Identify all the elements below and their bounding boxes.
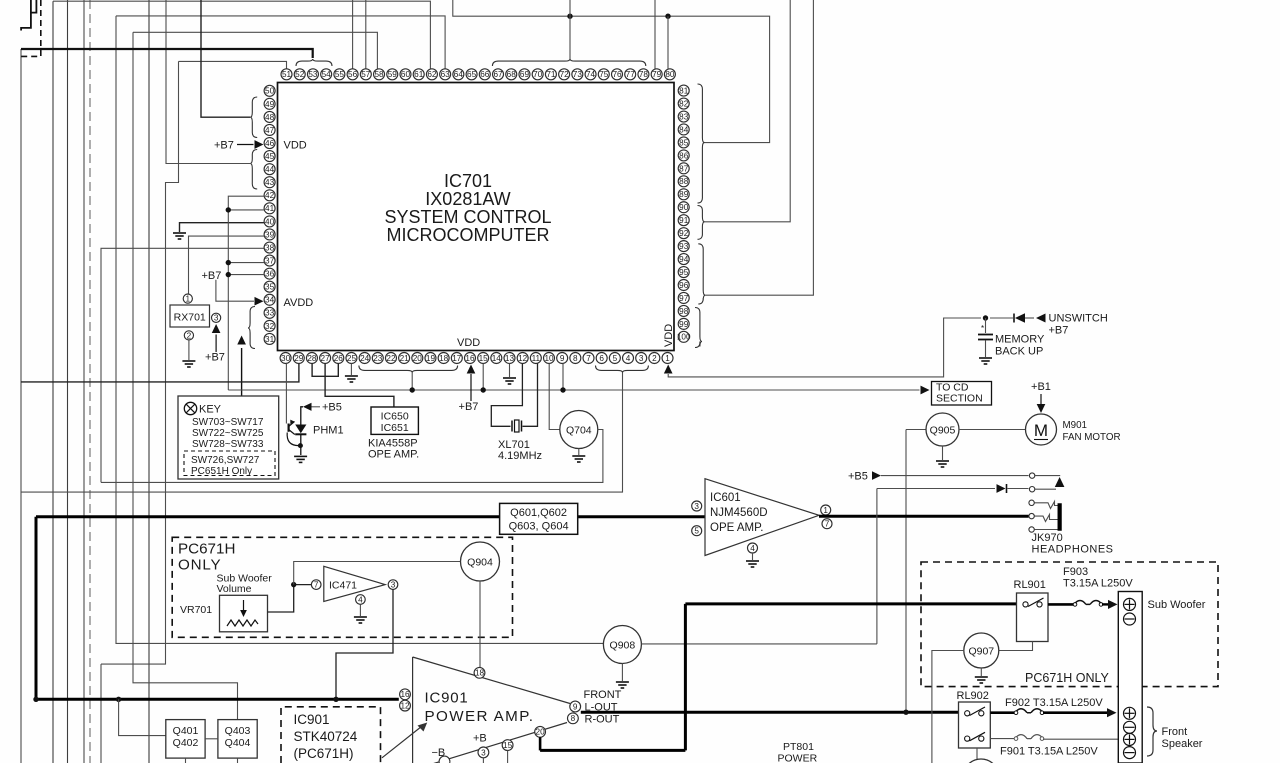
svg-text:78: 78 <box>639 70 649 79</box>
svg-text:Volume: Volume <box>217 583 252 595</box>
jack row3 contact <box>1035 502 1059 509</box>
svg-text:IC601: IC601 <box>710 492 741 504</box>
wire top to pin57 <box>365 0 367 69</box>
thick audio line IC601 out to jack <box>819 515 1029 518</box>
wire Q704 to y482 net <box>101 430 603 483</box>
transistor box Q401 Q402 <box>166 720 205 759</box>
jack row4 contact <box>1035 515 1059 522</box>
ground Q704 <box>578 449 580 456</box>
svg-text:ONLY: ONLY <box>178 557 221 574</box>
thick line fuse to subwoofer terminal <box>1102 603 1108 605</box>
junction dot PHM1 <box>298 443 303 448</box>
svg-text:Q403: Q403 <box>225 725 251 737</box>
svg-text:99: 99 <box>679 320 689 329</box>
wire pin30 stem to PHM1 <box>285 364 287 424</box>
wire Q401 stem <box>185 758 187 763</box>
crystal XL701 <box>511 421 513 432</box>
fuse F901 <box>1015 735 1043 739</box>
svg-text:3: 3 <box>639 354 644 363</box>
svg-text:3: 3 <box>694 502 699 511</box>
ground Q907 <box>980 668 982 676</box>
bus wire thick y49 <box>21 49 313 58</box>
svg-text:36: 36 <box>265 270 275 279</box>
wire Q904 down to IC901 pin18 <box>479 581 481 668</box>
svg-text:80: 80 <box>665 70 675 79</box>
wire bundle vertical x67 <box>67 0 69 763</box>
ground Q908 <box>621 664 623 682</box>
svg-text:Q908: Q908 <box>610 639 636 651</box>
transistor Q704 <box>560 411 598 449</box>
svg-text:IX0281AW: IX0281AW <box>425 189 510 209</box>
jack row2 wire to switch arrow <box>1035 488 1056 490</box>
svg-text:96: 96 <box>679 281 689 290</box>
wire bundle vertical x149 <box>148 0 150 763</box>
wire Q908 to diode riser x877 <box>876 489 878 644</box>
wire Q905 to M901 <box>959 429 1026 431</box>
svg-text:12: 12 <box>518 354 528 363</box>
brace left pins 49-47 <box>250 97 257 138</box>
op-amp IC650/IC651 box <box>371 407 418 434</box>
IC IC701 body <box>278 83 675 351</box>
junction dot pin15 <box>481 387 486 392</box>
svg-text:Q603, Q604: Q603, Q604 <box>509 521 569 533</box>
svg-text:54: 54 <box>322 70 332 79</box>
svg-text:4: 4 <box>358 595 363 604</box>
svg-text:RL901: RL901 <box>1014 579 1046 591</box>
brace right pins 81-89 <box>698 84 705 203</box>
svg-text:91: 91 <box>679 216 689 225</box>
svg-text:16: 16 <box>465 354 475 363</box>
svg-text:JK970: JK970 <box>1032 532 1063 544</box>
wire branch x165 jog <box>101 61 179 664</box>
junction dot x118 <box>116 697 121 702</box>
svg-text:53: 53 <box>308 70 318 79</box>
svg-text:HEADPHONES: HEADPHONES <box>1032 544 1114 556</box>
wire y32 to pin58 <box>133 32 377 69</box>
IC471 pin 3 <box>388 580 398 590</box>
svg-text:Q907: Q907 <box>968 645 994 657</box>
svg-text:40: 40 <box>265 217 275 226</box>
speaker terminal strip <box>1118 592 1142 763</box>
+B7 feed pin16 <box>467 365 476 374</box>
svg-text:IC650: IC650 <box>381 411 409 423</box>
svg-text:23: 23 <box>373 354 383 363</box>
svg-text:SYSTEM CONTROL: SYSTEM CONTROL <box>384 207 551 227</box>
svg-text:62: 62 <box>427 70 437 79</box>
svg-text:PC651H Only: PC651H Only <box>191 466 252 477</box>
wire pin12 to crystal <box>491 364 522 427</box>
svg-text:PHM1: PHM1 <box>313 425 344 437</box>
svg-text:82: 82 <box>679 99 689 108</box>
junction dot VR701 net <box>291 582 296 587</box>
svg-text:19: 19 <box>426 354 436 363</box>
IC901 pin 3 bottom <box>478 747 489 758</box>
svg-text:20: 20 <box>413 354 423 363</box>
svg-text:BACK UP: BACK UP <box>995 346 1043 358</box>
svg-text:F902 T3.15A L250V: F902 T3.15A L250V <box>1005 697 1103 709</box>
UNSWITCH net <box>990 317 1013 319</box>
svg-text:100: 100 <box>677 333 691 342</box>
op-amp IC601 triangle <box>705 479 819 556</box>
svg-text:63: 63 <box>441 70 451 79</box>
power amp IC901 triangle <box>413 657 570 763</box>
thick audio vertical x36 <box>35 517 38 700</box>
svg-text:Q402: Q402 <box>173 737 199 749</box>
svg-text:*: * <box>981 324 984 333</box>
brace top pins 52-54 <box>296 59 332 66</box>
svg-text:IC701: IC701 <box>444 171 492 191</box>
svg-text:1: 1 <box>186 295 191 304</box>
wire top to pin79 <box>654 0 656 69</box>
wire pin27 to IC650 <box>325 364 394 408</box>
ground pin13 <box>509 364 511 378</box>
svg-text:76: 76 <box>612 70 622 79</box>
+B7 feed RX701 pin3 <box>215 335 217 353</box>
op-amp IC471 triangle <box>324 566 385 601</box>
svg-text:68: 68 <box>507 70 517 79</box>
svg-text:44: 44 <box>265 165 275 174</box>
svg-text:55: 55 <box>335 70 345 79</box>
svg-text:4.19MHz: 4.19MHz <box>498 450 542 462</box>
KEY inner dashed box <box>184 451 275 476</box>
svg-text:85: 85 <box>679 138 689 147</box>
brace left pins 45-43 <box>250 150 257 190</box>
IC901 pin 16 <box>400 689 411 700</box>
svg-text:61: 61 <box>414 70 424 79</box>
transistor box Q403 Q404 <box>218 720 257 759</box>
fuse F903 <box>1074 600 1102 604</box>
svg-text:T3.15A L250V: T3.15A L250V <box>1063 578 1133 590</box>
svg-text:2: 2 <box>187 331 192 340</box>
IC701 left pins 50-31 <box>264 85 275 344</box>
diode unswitch <box>1013 314 1015 323</box>
wire y16 to pin63 <box>116 16 445 69</box>
brace right pins 93-97 <box>698 244 705 304</box>
svg-text:72: 72 <box>560 70 570 79</box>
svg-text:5: 5 <box>694 527 699 536</box>
wire Q905 net x906 <box>905 430 907 713</box>
svg-text:Q704: Q704 <box>566 424 592 436</box>
svg-text:49: 49 <box>265 100 275 109</box>
svg-text:15: 15 <box>503 741 513 750</box>
svg-text:51: 51 <box>282 70 292 79</box>
motor M901 <box>1026 414 1057 445</box>
svg-text:4: 4 <box>626 354 631 363</box>
IC901 pin 15 bottom <box>502 740 513 751</box>
bracket front speaker <box>1147 707 1157 756</box>
junction dot <box>665 14 670 19</box>
svg-text:6: 6 <box>599 354 604 363</box>
RX701 pin 2 <box>184 331 193 340</box>
wire RX701 pin2 to ground <box>188 340 190 360</box>
wire bundle vertical x21 <box>20 49 22 763</box>
wire top to pin56 <box>352 0 354 69</box>
IR receiver RX701 box <box>170 305 210 327</box>
svg-text:M901: M901 <box>1063 420 1088 431</box>
arrow TO CD <box>921 386 930 395</box>
wire bundle x201 to brace pins 49-47 <box>201 0 250 117</box>
IC901 pin 20 bottom <box>535 726 546 737</box>
dashed box PC671H ONLY right <box>921 562 1218 687</box>
jack row1 wire <box>1035 475 1060 477</box>
svg-text:86: 86 <box>679 151 689 160</box>
svg-text:90: 90 <box>679 203 689 212</box>
terminal subwoofer minus <box>1124 613 1136 625</box>
junction dot <box>567 14 572 19</box>
svg-text:64: 64 <box>454 70 464 79</box>
ground RX701 <box>182 361 195 367</box>
svg-text:26: 26 <box>334 354 344 363</box>
svg-text:67: 67 <box>493 70 503 79</box>
wire between Q401 Q403 <box>205 738 218 740</box>
svg-text:SECTION: SECTION <box>936 393 983 405</box>
PHM1 phototransistor <box>288 424 290 432</box>
svg-text:37: 37 <box>265 256 275 265</box>
thick vertical x685 <box>684 604 687 751</box>
svg-text:Sub Woofer: Sub Woofer <box>1148 599 1206 611</box>
svg-text:+B5: +B5 <box>848 471 868 483</box>
svg-text:(PC671H): (PC671H) <box>294 746 354 761</box>
svg-text:3: 3 <box>391 581 396 590</box>
svg-text:58: 58 <box>374 70 384 79</box>
svg-text:OPE AMP.: OPE AMP. <box>710 522 763 534</box>
wire top to brace pins 67-78 <box>569 0 571 59</box>
svg-text:IC471: IC471 <box>329 580 357 592</box>
svg-text:84: 84 <box>679 125 689 134</box>
svg-text:28: 28 <box>307 354 317 363</box>
RX701 pin 3 <box>212 313 221 322</box>
wire crystal to pin11 <box>523 364 538 427</box>
svg-text:34: 34 <box>265 296 275 305</box>
wire pin15 stem <box>482 364 484 391</box>
svg-text:95: 95 <box>679 268 689 277</box>
svg-text:PC671H ONLY: PC671H ONLY <box>1025 671 1109 685</box>
wire pin1 up arrow <box>664 365 673 374</box>
wire Q403 stem <box>237 758 239 763</box>
transistor Q906 partial <box>963 759 999 763</box>
svg-text:7: 7 <box>586 354 591 363</box>
ground Q905 <box>942 446 944 460</box>
svg-text:35: 35 <box>265 283 275 292</box>
IC601 pin 4 with ground <box>748 543 758 553</box>
hook wire B top left <box>21 0 31 31</box>
IC601 pin 3 <box>692 501 702 511</box>
svg-text:UNSWITCH: UNSWITCH <box>1049 313 1108 325</box>
wire dot to pin80 <box>667 16 669 69</box>
IC901 partial pin bottom <box>439 756 450 763</box>
svg-text:3: 3 <box>214 314 219 323</box>
svg-text:M: M <box>1034 421 1048 440</box>
wire y16 right segment to braces <box>453 0 770 143</box>
thick audio line into IC601 <box>36 515 500 518</box>
svg-text:48: 48 <box>265 113 275 122</box>
wire bundle vertical x84 <box>83 0 85 763</box>
svg-text:66: 66 <box>480 70 490 79</box>
svg-text:AVDD: AVDD <box>284 297 314 309</box>
svg-text:39: 39 <box>265 230 275 239</box>
transistor group box Q601-Q604 <box>500 503 578 534</box>
svg-text:+B7: +B7 <box>205 352 225 364</box>
transistor Q904 <box>461 542 500 581</box>
wire pins28-26 link <box>312 364 338 377</box>
wire pin36 to x228 net <box>228 274 264 276</box>
TO CD SECTION net y390 <box>228 389 919 391</box>
wire top to brace pins 93-97 <box>705 0 813 295</box>
svg-text:VR701: VR701 <box>180 604 212 616</box>
svg-text:1: 1 <box>823 506 828 515</box>
brace right pins 90-92 <box>698 206 705 240</box>
thick line RL901 to fuse F903 <box>1048 603 1074 606</box>
wire bundle x166 to brace pins 45-43 <box>166 0 250 164</box>
junction dot pin9 <box>560 387 565 392</box>
svg-text:13: 13 <box>505 354 515 363</box>
dashed box IC901 STK40724 <box>281 707 381 763</box>
IC471 pin 4 with ground <box>356 595 366 605</box>
svg-text:33: 33 <box>265 309 275 318</box>
svg-text:+B7: +B7 <box>202 270 222 282</box>
svg-text:MICROCOMPUTER: MICROCOMPUTER <box>387 225 550 245</box>
+B7 AVDD feed pin34 <box>216 280 254 302</box>
junction dot pin37 <box>226 260 231 265</box>
brace bottom pins 24-17 with stem <box>359 366 458 373</box>
svg-text:52: 52 <box>295 70 305 79</box>
svg-text:3: 3 <box>481 748 486 757</box>
IC601 pin 5 <box>692 526 702 536</box>
svg-text:16: 16 <box>400 690 410 699</box>
svg-text:89: 89 <box>679 190 689 199</box>
wire pin10 to Q704 <box>549 364 560 430</box>
svg-text:Q905: Q905 <box>930 424 956 436</box>
svg-text:27: 27 <box>321 354 331 363</box>
svg-text:92: 92 <box>679 229 689 238</box>
svg-text:MEMORY: MEMORY <box>995 334 1045 346</box>
wire RL902 to Q906 <box>976 748 978 759</box>
svg-text:15: 15 <box>479 354 489 363</box>
photo module PHM1 diode <box>295 425 306 434</box>
svg-text:2: 2 <box>652 354 657 363</box>
svg-text:60: 60 <box>401 70 411 79</box>
svg-text:83: 83 <box>679 112 689 121</box>
thick line y750 <box>540 749 685 752</box>
svg-text:9: 9 <box>573 702 578 711</box>
svg-text:Speaker: Speaker <box>1162 738 1203 750</box>
thick line fuse F902 to terminal <box>1043 711 1107 714</box>
KEY net arrow to brace 33-31 <box>241 348 243 396</box>
svg-text:81: 81 <box>679 87 689 96</box>
svg-text:32: 32 <box>265 322 275 331</box>
svg-text:7: 7 <box>825 520 830 529</box>
svg-text:94: 94 <box>679 255 689 264</box>
svg-text:RX701: RX701 <box>174 312 206 324</box>
wire bundle x116 to Q908 line <box>116 16 604 644</box>
svg-text:PC671H: PC671H <box>178 541 235 558</box>
ground PHM1 <box>294 456 307 462</box>
wire Q907 left down <box>932 651 964 763</box>
terminal front plus 1 <box>1124 707 1136 719</box>
brace right pins 98-100 <box>695 308 702 348</box>
svg-text:75: 75 <box>599 70 609 79</box>
wire brace 6-3 down to y492 line <box>21 373 623 493</box>
fuse F902 <box>1015 709 1043 713</box>
ground pin40 <box>173 233 186 239</box>
shield dashed vertical x90 <box>89 0 91 763</box>
junction dot x36 <box>33 697 38 702</box>
svg-text:14: 14 <box>492 354 502 363</box>
svg-text:25: 25 <box>347 354 357 363</box>
svg-text:4: 4 <box>750 544 755 553</box>
svg-text:93: 93 <box>679 242 689 251</box>
transistor Q907 <box>964 633 999 668</box>
wire VR701 to IC471 pin7 <box>268 585 312 612</box>
svg-text:IC901: IC901 <box>425 690 469 707</box>
svg-text:KEY: KEY <box>199 404 222 416</box>
IC701 title text <box>384 171 551 245</box>
thick line RL902 to fuse F902 <box>990 711 1015 714</box>
svg-text:SW703~SW717: SW703~SW717 <box>192 417 264 428</box>
wire Q908 right <box>641 643 877 645</box>
svg-text:30: 30 <box>281 354 291 363</box>
svg-text:+B1: +B1 <box>1031 381 1051 393</box>
transistor Q905 <box>906 429 926 431</box>
thick audio line y699 to IC901 <box>36 698 399 701</box>
junction dot brace24-17 <box>410 387 415 392</box>
wire y61 pin51 to x178 bundle <box>179 61 287 69</box>
IC471 pin 7 <box>311 580 321 590</box>
svg-text:IC651: IC651 <box>381 422 409 434</box>
svg-text:56: 56 <box>348 70 358 79</box>
net x228 vertical pin42/41 to TO-CD line <box>228 196 264 390</box>
RX701 pin 1 <box>183 294 192 303</box>
svg-text:POWER AMP.: POWER AMP. <box>425 708 535 725</box>
svg-text:79: 79 <box>652 70 662 79</box>
ground memory backup <box>979 358 992 364</box>
svg-text:11: 11 <box>532 354 541 363</box>
svg-text:43: 43 <box>265 178 275 187</box>
jack sleeve bar <box>1058 504 1062 531</box>
svg-text:69: 69 <box>520 70 530 79</box>
svg-text:8: 8 <box>573 354 578 363</box>
IC901 pin 18 <box>474 667 485 678</box>
wire IC471 pin3 to power amp input <box>336 589 393 699</box>
svg-text:42: 42 <box>265 191 275 200</box>
wire pin37 to x228 net <box>228 262 264 264</box>
svg-text:71: 71 <box>546 70 556 79</box>
svg-text:Q404: Q404 <box>225 737 251 749</box>
svg-text:29: 29 <box>294 354 304 363</box>
junction dot pin36 <box>226 272 231 277</box>
wire bundle vertical x53 <box>52 1 54 763</box>
RL902 switch top <box>965 711 970 716</box>
svg-text:31: 31 <box>265 335 275 344</box>
svg-text:18: 18 <box>439 354 449 363</box>
wire top y1 to pin62 <box>53 1 430 69</box>
KEY lamp symbol <box>184 402 196 414</box>
svg-text:10: 10 <box>544 354 554 363</box>
capacitor MEMORY BACK UP <box>985 318 987 333</box>
relay RL901 box <box>1017 593 1049 642</box>
IC701 right pins 81-100 <box>677 85 691 342</box>
svg-text:R-OUT: R-OUT <box>585 714 620 726</box>
svg-text:74: 74 <box>586 70 596 79</box>
svg-text:20: 20 <box>536 728 546 737</box>
wire pin39 to RX701 pin1 <box>189 236 265 294</box>
wire pin9 stem <box>562 364 564 391</box>
diode jack feed <box>877 488 995 490</box>
svg-text:SW722~SW725: SW722~SW725 <box>192 428 264 439</box>
svg-text:45: 45 <box>265 152 275 161</box>
+B5 feed PHM1 <box>303 403 312 411</box>
junction dot x906 on L-OUT <box>903 710 908 715</box>
